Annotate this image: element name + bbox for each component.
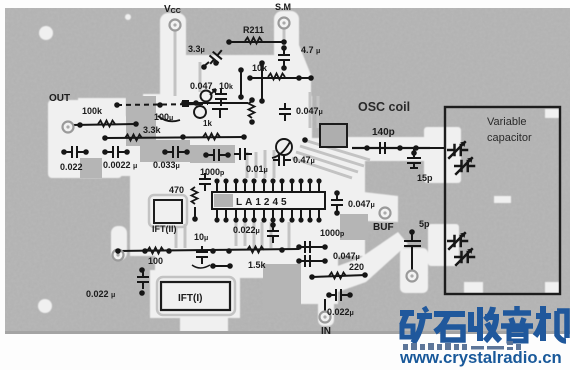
node 140p b <box>397 145 403 151</box>
node 5p <box>409 229 415 235</box>
IC pin 5 top <box>251 178 256 192</box>
watermark char kuang <box>400 307 432 343</box>
IC pin 4 top <box>242 178 247 192</box>
node 0.022 ll top <box>139 267 145 273</box>
watermark small caption row <box>403 341 521 350</box>
capacitor 10u arrow <box>192 265 210 268</box>
node 0.033 l <box>162 149 168 155</box>
capacitor 0.047 vertical <box>215 88 227 106</box>
IN pad <box>320 312 331 323</box>
wire row y138 <box>105 137 245 138</box>
IC pin 4 bottom <box>242 209 247 223</box>
Vcc vertical strip <box>160 13 186 105</box>
BUF pad <box>380 208 391 219</box>
capacitor 0.022u bottom right <box>330 289 348 301</box>
resistor 100 <box>147 248 164 254</box>
node 0.022 ll bottom <box>139 290 145 296</box>
capacitor 0.047u upper mid <box>279 103 291 121</box>
IC pin 11 top <box>307 178 312 192</box>
S.M pad <box>279 18 290 29</box>
node R211 left <box>226 39 232 45</box>
node 0.0022 l <box>102 149 108 155</box>
wire 10k top row <box>240 70 242 96</box>
node 0.022 mid top <box>270 222 276 228</box>
node y138 c <box>241 134 247 140</box>
node 10k left <box>238 67 244 73</box>
node dashed right <box>157 102 163 108</box>
svg-text:LA1245: LA1245 <box>236 197 290 208</box>
light gray traces inside white <box>149 28 430 315</box>
svg-text:IFT(I): IFT(I) <box>178 293 202 304</box>
svg-text:OUT: OUT <box>49 93 70 104</box>
5p pad <box>407 271 418 282</box>
IC pin 1 top <box>214 178 219 192</box>
node 0.022 br r <box>347 292 353 298</box>
node 0.022 r <box>83 149 89 155</box>
node y124 left <box>77 122 83 128</box>
wire row y103 <box>183 102 248 104</box>
svg-text:3.3k: 3.3k <box>143 125 162 135</box>
board bottom edge shade <box>5 331 570 334</box>
watermark char shi <box>434 314 465 340</box>
node 0.022 l <box>61 149 67 155</box>
node y103 b <box>193 100 199 106</box>
IC pin 7 bottom <box>270 209 275 223</box>
svg-text:R211: R211 <box>243 25 264 35</box>
IC pin 11 bottom <box>307 209 312 223</box>
right extensions <box>330 137 448 161</box>
node misc b <box>302 137 308 143</box>
capacitor 0.022u mid vertical <box>267 225 279 243</box>
capacitor 0.047u right of IC <box>331 194 343 212</box>
resistor 3.3k <box>125 135 142 141</box>
node column top <box>259 60 265 66</box>
node y266 a <box>210 263 216 269</box>
wire 140p left <box>352 147 445 149</box>
node S.M column <box>308 75 314 81</box>
IC pin 12 top <box>316 178 321 192</box>
node y251 d <box>210 248 216 254</box>
svg-text:www.crystalradio.cn: www.crystalradio.cn <box>399 348 562 367</box>
IFT(I) box <box>161 282 230 310</box>
IFT(II) box <box>154 200 182 223</box>
svg-text:0.022: 0.022 <box>60 162 83 172</box>
coil square <box>320 124 347 147</box>
resistor R211 <box>245 38 262 44</box>
svg-text:0.022 μ: 0.022 μ <box>86 289 115 299</box>
IC LA1245 body <box>212 192 325 209</box>
capacitor 1000p at pin1 <box>199 173 211 191</box>
transistor Q3 arrow <box>272 142 290 158</box>
S.M strip <box>274 11 299 61</box>
node misc a <box>213 60 219 66</box>
capacitor 1000p right upper <box>299 241 317 253</box>
node y251 c <box>166 248 172 254</box>
IC pin 9 top <box>289 178 294 192</box>
node 0.047 right bottom <box>334 210 340 216</box>
svg-text:1.5k: 1.5k <box>248 260 267 270</box>
IC pin 10 bottom <box>298 209 303 223</box>
transistor Q1 <box>201 91 212 102</box>
watermark char shou <box>471 307 500 341</box>
svg-text:140p: 140p <box>372 127 395 138</box>
OUT pad <box>63 122 74 133</box>
node 4.7u bottom <box>281 65 287 71</box>
middle band <box>78 98 126 170</box>
svg-text:15p: 15p <box>417 173 433 183</box>
capacitor 0.047u right lower <box>299 255 317 267</box>
wire 220 <box>312 275 366 277</box>
variable capacitor lower pair B <box>454 248 475 266</box>
node square y103 <box>182 100 189 107</box>
node R211 right <box>281 39 287 45</box>
wire row y266 <box>213 265 231 267</box>
node 10k wire right <box>296 75 302 81</box>
resistor vertical 10k <box>249 101 255 118</box>
node y138 b <box>180 134 186 140</box>
capacitor 10k lower T <box>212 109 228 118</box>
transistor Q1 arrow <box>210 89 216 95</box>
IC pin 12 bottom <box>316 209 321 223</box>
IC pin 5 bottom <box>251 209 256 223</box>
dashed wire 100k <box>117 104 208 105</box>
wire 470 lead <box>194 207 196 219</box>
svg-text:5p: 5p <box>419 219 430 229</box>
capacitor 0.01u <box>234 148 252 160</box>
wire 3.3u lower lead <box>203 62 209 67</box>
svg-text:IFT(II): IFT(II) <box>152 224 177 234</box>
capacitor 4.7u <box>278 49 290 67</box>
node y251 a <box>115 248 121 254</box>
svg-text:IN: IN <box>321 326 331 337</box>
svg-text:BUF: BUF <box>373 222 394 233</box>
svg-text:470: 470 <box>169 185 184 195</box>
node 1000p r <box>225 152 231 158</box>
node column bottom <box>259 98 265 104</box>
node 140p c <box>413 145 419 151</box>
node 220 r <box>362 272 368 278</box>
IC pin 1 bottom <box>214 209 219 223</box>
node 470 <box>192 216 198 222</box>
node y251 f <box>279 247 285 253</box>
IC pin 2 bottom <box>223 209 228 223</box>
watermark <box>399 306 567 367</box>
central top white zone <box>186 55 282 139</box>
IC pin 6 bottom <box>261 209 266 223</box>
resistor 100k <box>98 121 115 127</box>
capacitor 10u electrolytic <box>196 246 208 264</box>
wire S.M column <box>280 77 311 79</box>
node 3.3u <box>201 64 207 70</box>
transistor Q3 <box>276 139 292 155</box>
IC pin 7 top <box>270 178 275 192</box>
resistor 1.5k <box>247 247 264 253</box>
node 220 l <box>309 274 315 280</box>
node 1000p l <box>203 152 209 158</box>
gray patches inside white regions <box>80 96 368 312</box>
wire IN <box>324 299 326 311</box>
svg-text:220: 220 <box>349 262 364 272</box>
variable capacitor lower pair A <box>447 232 468 250</box>
pad row y251 <box>113 250 124 261</box>
node 1000p right r <box>322 244 328 250</box>
resistor 470 <box>192 187 198 204</box>
OUT block <box>48 100 122 178</box>
variable capacitor box <box>445 107 560 294</box>
IC pin 9 bottom <box>289 209 294 223</box>
node y138 a <box>102 135 108 141</box>
svg-text:0.0022 μ: 0.0022 μ <box>103 160 137 170</box>
white copper trace regions <box>38 11 560 333</box>
resistor 220 <box>329 273 346 279</box>
node y103 c <box>238 94 244 100</box>
svg-text:1k: 1k <box>203 119 212 128</box>
wire row y251 <box>118 249 299 251</box>
svg-text:100k: 100k <box>82 106 103 116</box>
node 10k wire left <box>247 75 253 81</box>
resistor R211 wire <box>229 41 284 43</box>
node 0.033 r <box>184 149 190 155</box>
node y251 e <box>226 248 232 254</box>
mounting holes <box>39 26 53 40</box>
svg-text:10k: 10k <box>252 63 268 73</box>
node y266 b <box>227 263 233 269</box>
node y251 b <box>142 248 148 254</box>
capacitor 5p <box>404 232 421 270</box>
node y103 d <box>249 97 255 103</box>
svg-text:OSC coil: OSC coil <box>358 100 410 114</box>
node y103 e <box>249 119 255 125</box>
node y124 right <box>133 121 139 127</box>
node 0.047u rl r <box>322 258 328 264</box>
IC LA1245 inner shade <box>214 194 233 207</box>
capacitor 0.022u lower-left <box>137 271 149 289</box>
watermark char yin <box>501 306 533 341</box>
watermark char ji <box>535 306 567 341</box>
capacitor 15p to ground <box>407 148 421 168</box>
capacitor 3.3u <box>206 46 227 68</box>
capacitor 100u arrow <box>158 116 180 121</box>
node dashed left <box>114 102 120 108</box>
resistor 10k upper <box>268 74 285 80</box>
central big mass around IC <box>130 138 365 256</box>
node 0.022 br l <box>326 292 332 298</box>
node 15p <box>411 150 417 156</box>
capacitor 0.0022u <box>107 146 125 158</box>
capacitor 0.47u <box>273 154 291 166</box>
node 4.7u top <box>281 45 287 51</box>
svg-text:S.M: S.M <box>275 2 291 12</box>
capacitor 0.022 <box>66 146 84 158</box>
capacitor 140p <box>374 142 392 154</box>
Vcc pad <box>170 20 181 31</box>
node 0.047u rl l <box>296 258 302 264</box>
IC pin 3 top <box>233 178 238 192</box>
capacitor 0.033u <box>167 146 185 158</box>
transistor Q2 <box>194 106 206 118</box>
IC pin 2 top <box>223 178 228 192</box>
IC pin 8 bottom <box>279 209 284 223</box>
node 1000p right l <box>296 244 302 250</box>
wire row y124 <box>72 124 137 125</box>
wire 10k horizontal <box>250 77 300 79</box>
IC pin 6 top <box>261 178 266 192</box>
node 0.0022 r <box>124 149 130 155</box>
capacitor 1000p left <box>208 149 226 161</box>
node y103 a <box>181 100 187 106</box>
variable capacitor upper pair A <box>447 141 468 159</box>
variable capacitor upper pair B <box>454 157 475 175</box>
node 140p a <box>364 145 370 151</box>
svg-text:0.047: 0.047 <box>190 81 213 91</box>
node 0.047 right top <box>334 190 340 196</box>
svg-text:100: 100 <box>148 256 163 266</box>
IC pin 8 top <box>279 178 284 192</box>
IC pin 10 top <box>298 178 303 192</box>
IC pin 3 bottom <box>233 209 238 223</box>
resistor 1k <box>203 134 220 140</box>
white pads inside variable capacitor box <box>464 282 483 293</box>
wire vertical node column <box>261 63 263 101</box>
